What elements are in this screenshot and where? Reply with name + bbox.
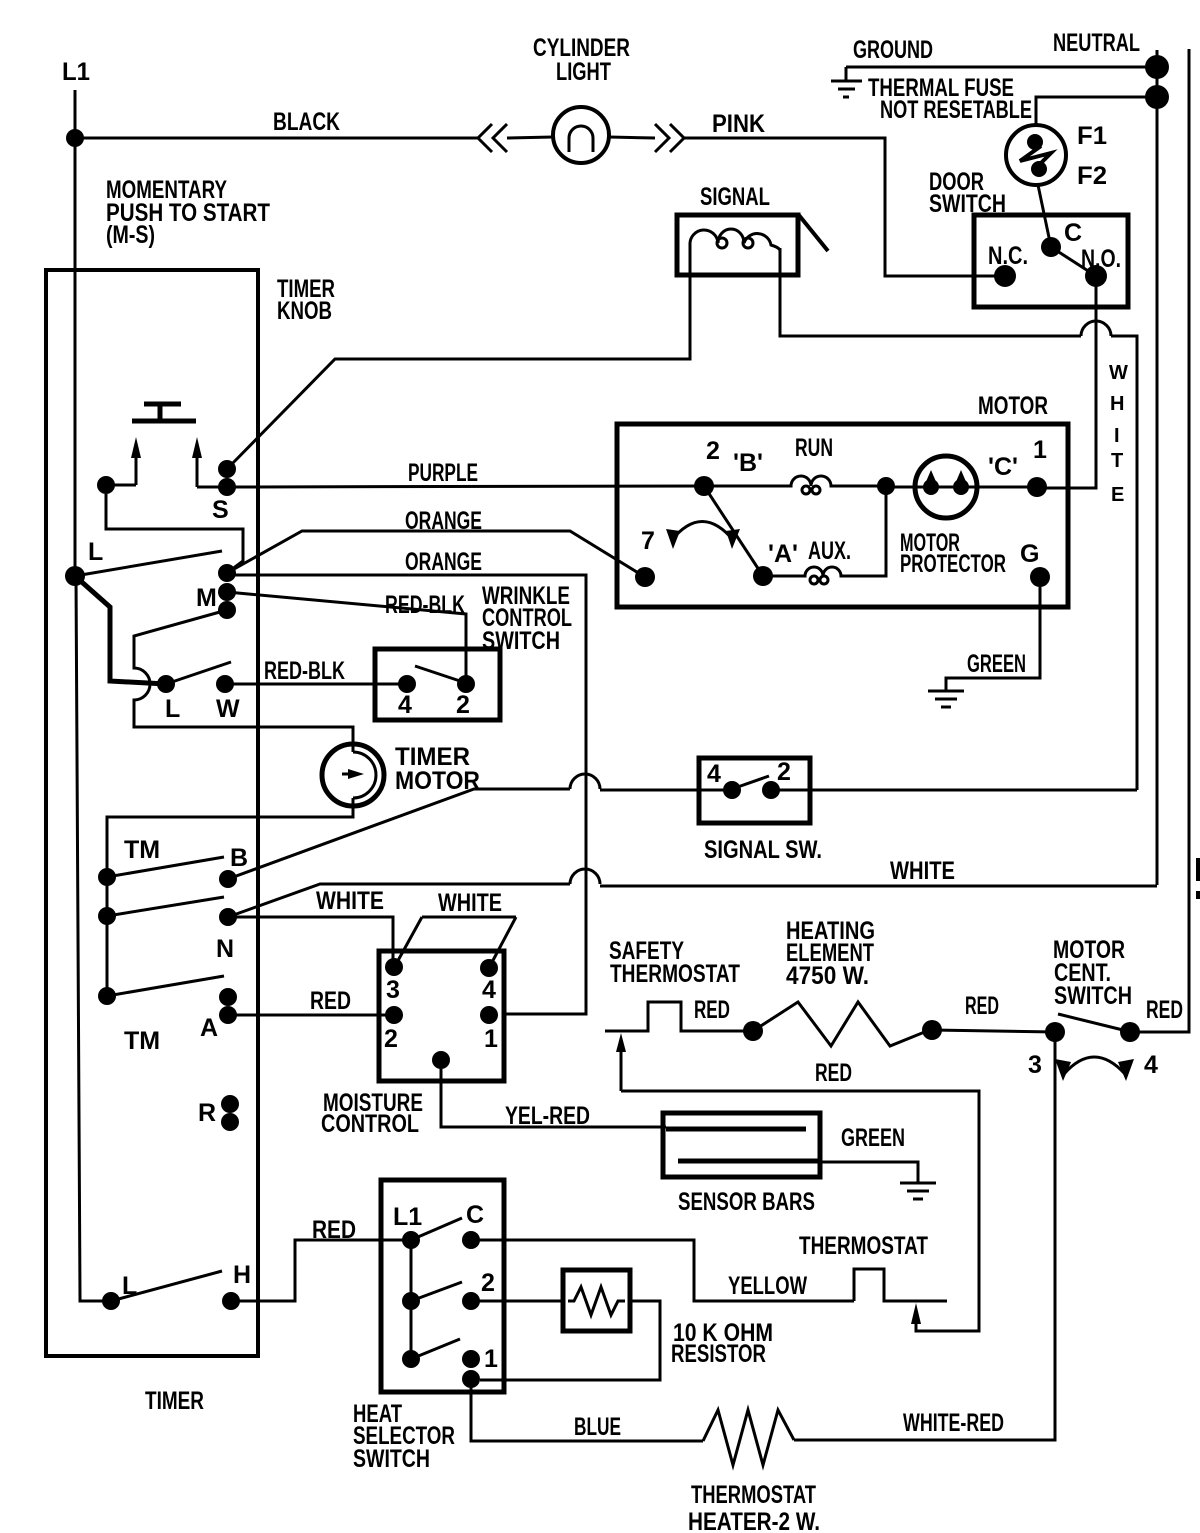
svg-text:BLUE: BLUE [574, 1413, 621, 1441]
cent switch contact 3 [1045, 1022, 1065, 1042]
svg-text:2: 2 [384, 1025, 398, 1053]
svg-text:L: L [88, 538, 103, 566]
svg-text:L1: L1 [62, 58, 90, 86]
cent switch rotation arc [1064, 1057, 1125, 1074]
svg-text:GROUND: GROUND [853, 36, 933, 64]
svg-text:RED: RED [815, 1059, 852, 1087]
moisture bottom contact [432, 1051, 450, 1069]
wire heater to cent switch [932, 1030, 1055, 1032]
wire resistor to 1 [480, 1301, 660, 1380]
heat selector blade 3 [411, 1339, 460, 1359]
svg-text:2: 2 [706, 437, 720, 465]
aux winding [763, 486, 886, 576]
cylinder light lamp [553, 107, 609, 163]
svg-text:M: M [196, 584, 217, 612]
connector chevrons left [478, 124, 507, 152]
svg-text:2: 2 [481, 1269, 495, 1297]
svg-text:THERMOSTAT: THERMOSTAT [799, 1232, 928, 1260]
svg-text:N.C.: N.C. [988, 242, 1028, 270]
timer blade TM-N [107, 897, 224, 916]
svg-text:'B': 'B' [733, 449, 763, 477]
svg-text:N.O.: N.O. [1081, 245, 1121, 273]
timer motor rotor arc [353, 752, 376, 798]
wire neutral to fuse [1036, 97, 1157, 126]
hop over orange drop [570, 774, 600, 789]
svg-text:4: 4 [482, 976, 496, 1004]
resistor box [563, 1270, 630, 1331]
contact N [219, 908, 237, 926]
heat selector contact C [462, 1231, 480, 1249]
wire signal output right [1111, 336, 1137, 790]
svg-text:A: A [200, 1014, 218, 1042]
wire signal output [780, 248, 1081, 336]
thermostat sensor arrow [911, 1303, 921, 1324]
wire RED-BLK M to wrinkle 2 [227, 592, 466, 683]
contact M-S left [97, 476, 115, 494]
svg-text:MOTOR: MOTOR [978, 392, 1048, 420]
svg-text:H: H [233, 1261, 251, 1289]
svg-text:7: 7 [641, 527, 655, 555]
heat selector contact 2R [462, 1292, 480, 1310]
svg-text:GREEN: GREEN [967, 650, 1026, 678]
motor protector MP [915, 456, 977, 518]
wire timer motor bottom [107, 798, 353, 877]
wire to cylinder light [507, 137, 553, 138]
run winding [704, 476, 886, 486]
wire neutral stub [1156, 50, 1159, 67]
wire M down to timer motor [134, 610, 353, 752]
svg-text:'A': 'A' [768, 540, 798, 568]
signal switch box [699, 758, 810, 823]
svg-text:NOT RESETABLE: NOT RESETABLE [880, 96, 1032, 124]
svg-text:THERMOSTAT: THERMOSTAT [610, 960, 740, 988]
hop over NO wire [1081, 321, 1111, 336]
svg-text:TM: TM [124, 836, 160, 864]
svg-text:H: H [1110, 393, 1124, 415]
heating element zigzag [753, 1002, 932, 1046]
wire ORANGE 2 M to moisture 1 [227, 575, 586, 1014]
motor terminal 1 [1027, 477, 1047, 497]
motor terminal 2 [694, 476, 714, 496]
wire to signal switch 4 [600, 789, 732, 792]
node run/aux junction [877, 477, 895, 495]
motor terminal G [1030, 567, 1050, 587]
wire left contact down to M [106, 494, 243, 573]
signal sw contact 4 [723, 781, 741, 799]
wire ground to neutral [846, 66, 1157, 69]
svg-text:L1: L1 [393, 1203, 422, 1231]
node heater right [922, 1020, 942, 1040]
svg-text:4750 W.: 4750 W. [786, 962, 869, 990]
svg-text:SWITCH: SWITCH [1054, 982, 1132, 1010]
svg-text:'C': 'C' [988, 453, 1018, 481]
node neutral junction 2 [1145, 85, 1169, 109]
thermostat symbol [854, 1269, 947, 1301]
svg-text:G: G [1020, 540, 1039, 568]
thermal fuse F [1006, 125, 1066, 185]
motor terminal 7 [635, 567, 655, 587]
wire N to moisture 3 [228, 917, 393, 967]
wrinkle contact 2 [457, 675, 475, 693]
safety thermostat sensor arrow [620, 1048, 623, 1091]
heat selector box [381, 1180, 504, 1392]
svg-text:PINK: PINK [712, 110, 765, 138]
svg-text:C: C [1064, 219, 1082, 247]
svg-text:KNOB: KNOB [277, 297, 332, 325]
signal coil [690, 229, 780, 250]
timer motor TM [322, 744, 384, 806]
heat selector blade 1 [411, 1218, 462, 1240]
wire L1 vertical [74, 90, 77, 576]
svg-text:1: 1 [1033, 436, 1047, 464]
sensor bar 1 [666, 1127, 806, 1132]
wire C to thermostat [471, 1240, 854, 1301]
contact A dots [219, 988, 237, 1006]
timer blade lower L [166, 662, 231, 684]
svg-text:BLACK: BLACK [273, 108, 340, 136]
svg-text:(M-S): (M-S) [106, 221, 155, 249]
door switch contact NC [994, 265, 1016, 287]
svg-text:PROTECTOR: PROTECTOR [900, 550, 1006, 578]
svg-text:SENSOR BARS: SENSOR BARS [678, 1188, 815, 1216]
svg-text:TIMER: TIMER [145, 1387, 204, 1415]
svg-text:W: W [216, 695, 240, 723]
contact TM2 [98, 907, 116, 925]
svg-text:1: 1 [484, 1025, 498, 1053]
signal sw contact 2 [762, 781, 780, 799]
wire B to signal switch [228, 789, 570, 879]
heat selector blade 2 [411, 1282, 462, 1301]
moisture control box [379, 951, 504, 1081]
svg-text:4: 4 [398, 691, 412, 719]
contact H [222, 1292, 240, 1310]
wrinkle control switch box [375, 649, 500, 720]
svg-text:WHITE: WHITE [438, 889, 502, 917]
push-to-start arrow right [196, 456, 199, 487]
wire 1 to thermostat heater [471, 1388, 703, 1441]
wire L down to bottom L contact [76, 576, 111, 1301]
svg-text:RED: RED [694, 996, 730, 1024]
thermal fuse contact F2 [1031, 161, 1047, 177]
push-to-start arrow left [135, 456, 138, 485]
svg-text:4: 4 [1144, 1051, 1158, 1079]
timer motor hand arrow [342, 773, 355, 776]
node L junction [65, 566, 85, 586]
signal box pointer [798, 214, 828, 251]
svg-text:B: B [230, 844, 248, 872]
svg-text:GREEN: GREEN [841, 1124, 905, 1152]
node neutral junction 1 [1145, 55, 1169, 79]
wire S diagonal to signal [227, 248, 690, 469]
timer blade TM-B [107, 857, 224, 877]
resistor element [568, 1287, 625, 1315]
heat selector common vertical [410, 1240, 413, 1359]
wrinkle blade [415, 666, 466, 683]
svg-text:RED: RED [965, 992, 999, 1020]
wire cent 3 to white-red [794, 1032, 1055, 1440]
ground symbol sensor [900, 1183, 936, 1199]
svg-text:2: 2 [456, 691, 470, 719]
svg-text:AUX.: AUX. [808, 537, 851, 565]
contact lower L [157, 675, 175, 693]
contact TM1 [98, 868, 116, 886]
svg-text:WHITE-RED: WHITE-RED [903, 1409, 1004, 1437]
contact R dots [221, 1095, 239, 1113]
wire right arrow to S [197, 486, 227, 489]
svg-text:4: 4 [707, 760, 721, 788]
svg-text:3: 3 [1028, 1051, 1042, 1079]
right edge crop marks [1196, 858, 1200, 881]
svg-text:SWITCH: SWITCH [353, 1445, 430, 1473]
svg-text:RED-BLK: RED-BLK [385, 591, 465, 619]
moisture contact 1 [480, 1006, 498, 1024]
door switch contact C [1041, 237, 1061, 257]
wire W to wrinkle 4 [225, 683, 407, 686]
svg-text:SIGNAL SW.: SIGNAL SW. [704, 836, 822, 864]
svg-text:HEATER-2 W.: HEATER-2 W. [688, 1508, 820, 1533]
wire NO to motor terminal 1 [1037, 276, 1096, 488]
cent switch contact 4 [1120, 1022, 1140, 1042]
signal sw blade [732, 776, 769, 789]
contact M dots [218, 564, 236, 582]
wire moisture to sensor bars [441, 1069, 666, 1127]
motor protector contacts [923, 479, 939, 495]
wire left contact to arrow [106, 484, 136, 487]
wire ORANGE 1 M to motor 7 [227, 531, 645, 577]
signal box [677, 215, 798, 275]
moisture contact 2 [385, 1006, 403, 1024]
white flag leader [395, 917, 516, 966]
push-to-start plunger [132, 404, 196, 421]
svg-text:WHITE: WHITE [316, 887, 384, 915]
cent switch blade [1058, 1014, 1127, 1031]
sensor bar 2 [678, 1159, 818, 1164]
heat selector contact L1 [402, 1231, 420, 1249]
svg-text:LIGHT: LIGHT [556, 58, 611, 86]
svg-text:ORANGE: ORANGE [405, 548, 482, 576]
door switch box [974, 215, 1128, 307]
svg-text:RED: RED [310, 987, 351, 1015]
wire G to ground [946, 587, 1040, 691]
wire fuse to door switch C [1038, 185, 1051, 247]
wire TM common [106, 877, 109, 996]
svg-text:PURPLE: PURPLE [408, 459, 478, 487]
contact B [219, 870, 237, 888]
timer box [46, 270, 258, 1356]
wire A to moisture 2 [228, 1014, 394, 1017]
moisture contact 3 [385, 958, 403, 976]
wire junction to terminal 1 [886, 486, 1037, 489]
thermal fuse contact F1 [1027, 134, 1043, 150]
svg-text:TM: TM [124, 1027, 160, 1055]
svg-text:SIGNAL: SIGNAL [700, 183, 770, 211]
motor rotation arc [671, 522, 734, 542]
timer blade L-H [111, 1271, 222, 1301]
hop over orange drop 2 [570, 869, 600, 884]
door switch contact NO [1085, 265, 1107, 287]
svg-text:WHITE: WHITE [890, 857, 955, 885]
node L1 junction dot [66, 129, 84, 147]
motor blade 2 to A [704, 486, 763, 576]
heat selector contact 2L [402, 1292, 420, 1310]
svg-text:S: S [212, 496, 229, 524]
svg-text:N: N [216, 935, 234, 963]
label WHITE vertical [1109, 362, 1128, 506]
svg-text:CONTROL: CONTROL [321, 1110, 419, 1138]
thermostat heater zigzag [703, 1410, 794, 1465]
svg-text:F2: F2 [1077, 162, 1107, 190]
wrinkle contact 4 [398, 675, 416, 693]
heat selector contact 1R dots [462, 1350, 480, 1368]
ground symbol top [831, 67, 862, 97]
svg-text:F1: F1 [1077, 122, 1107, 150]
contact S dots [218, 460, 236, 478]
thermal fuse element [1020, 146, 1051, 170]
svg-text:I: I [1114, 425, 1120, 447]
svg-text:RED: RED [1146, 996, 1183, 1024]
svg-text:R: R [198, 1099, 216, 1127]
wire PURPLE S to motor 2 [227, 486, 704, 487]
moisture contact 4 [480, 959, 498, 977]
svg-text:1: 1 [484, 1345, 498, 1373]
wire signal sw out [771, 789, 1137, 792]
motor terminal A [753, 566, 773, 586]
wire PINK horizontal [684, 138, 1005, 276]
wire L to lower L contact [75, 576, 166, 684]
svg-text:YELLOW: YELLOW [728, 1272, 807, 1300]
wire BLACK horizontal [75, 137, 478, 140]
sensor bars box [663, 1113, 820, 1177]
wire safety thermostat return [621, 1091, 979, 1331]
svg-text:T: T [1111, 450, 1123, 472]
door switch blade [1051, 247, 1096, 276]
svg-text:RESISTOR: RESISTOR [671, 1340, 766, 1368]
wire H to heat selector [231, 1240, 411, 1301]
timer blade TM-A [107, 976, 224, 996]
svg-text:THERMOSTAT: THERMOSTAT [691, 1481, 816, 1509]
wire sensor to ground [820, 1162, 918, 1183]
wire 2 to resistor [471, 1300, 563, 1303]
connector chevrons right [655, 124, 684, 152]
svg-text:RED-BLK: RED-BLK [264, 657, 345, 685]
contact TM3 [98, 987, 116, 1005]
wire neutral vertical [1156, 67, 1159, 885]
heat selector contact 1L [402, 1350, 420, 1368]
wire N to white neutral [228, 884, 570, 917]
svg-text:E: E [1111, 484, 1124, 506]
svg-text:2: 2 [777, 758, 791, 786]
timer blade L [75, 551, 222, 576]
svg-text:NEUTRAL: NEUTRAL [1053, 29, 1140, 57]
svg-text:3: 3 [386, 976, 400, 1004]
contact W [216, 675, 234, 693]
safety thermostat symbol [605, 1002, 753, 1031]
svg-text:W: W [1109, 362, 1128, 384]
cylinder light filament [569, 126, 593, 152]
wire lamp to chevrons [609, 137, 655, 138]
svg-text:C: C [466, 1201, 484, 1229]
contact bottom L [102, 1292, 120, 1310]
wire WHITE to neutral vertical [600, 885, 1157, 888]
svg-text:RUN: RUN [795, 434, 833, 462]
ground symbol motor [928, 691, 964, 707]
motor box [617, 424, 1068, 607]
wire cent 4 to right edge [1130, 49, 1189, 1032]
node heater left [743, 1021, 763, 1041]
svg-text:L: L [165, 695, 180, 723]
